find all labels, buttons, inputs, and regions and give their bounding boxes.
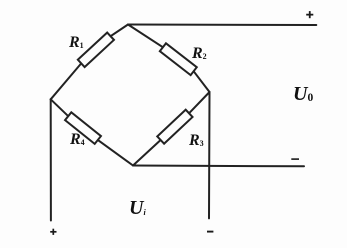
label R1 (69, 34, 84, 52)
label - terminal right (291, 158, 299, 160)
label R4 (70, 131, 85, 149)
resistor R3 (157, 110, 192, 144)
label + terminal top right (306, 11, 313, 18)
wire left node through R4 to bottom node (51, 99, 133, 165)
wire bottom node to - terminal (right) (133, 165, 304, 168)
resistor R4 (65, 112, 101, 144)
wire left node down to + terminal (bottom left) (50, 99, 52, 220)
resistor R2 (160, 43, 197, 75)
label + terminal bottom left (50, 229, 56, 235)
wire right node down to - terminal (bottom) (208, 92, 211, 218)
resistor R1 (78, 33, 114, 68)
wire top node through R2 to right node (128, 25, 210, 93)
label - terminal bottom (207, 231, 213, 233)
label R2 (192, 45, 207, 63)
label R3 (189, 132, 204, 150)
wire top node to + terminal (right) (128, 24, 316, 27)
label U0 output voltage (293, 83, 313, 106)
wire right node through R3 to bottom node (133, 92, 210, 166)
label Ui input voltage (129, 197, 146, 220)
wire top node through R1 to left node (51, 25, 128, 100)
